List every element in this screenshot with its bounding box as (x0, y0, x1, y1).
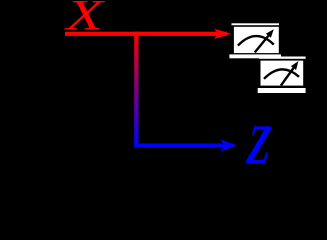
svg-text:X: X (64, 0, 105, 39)
